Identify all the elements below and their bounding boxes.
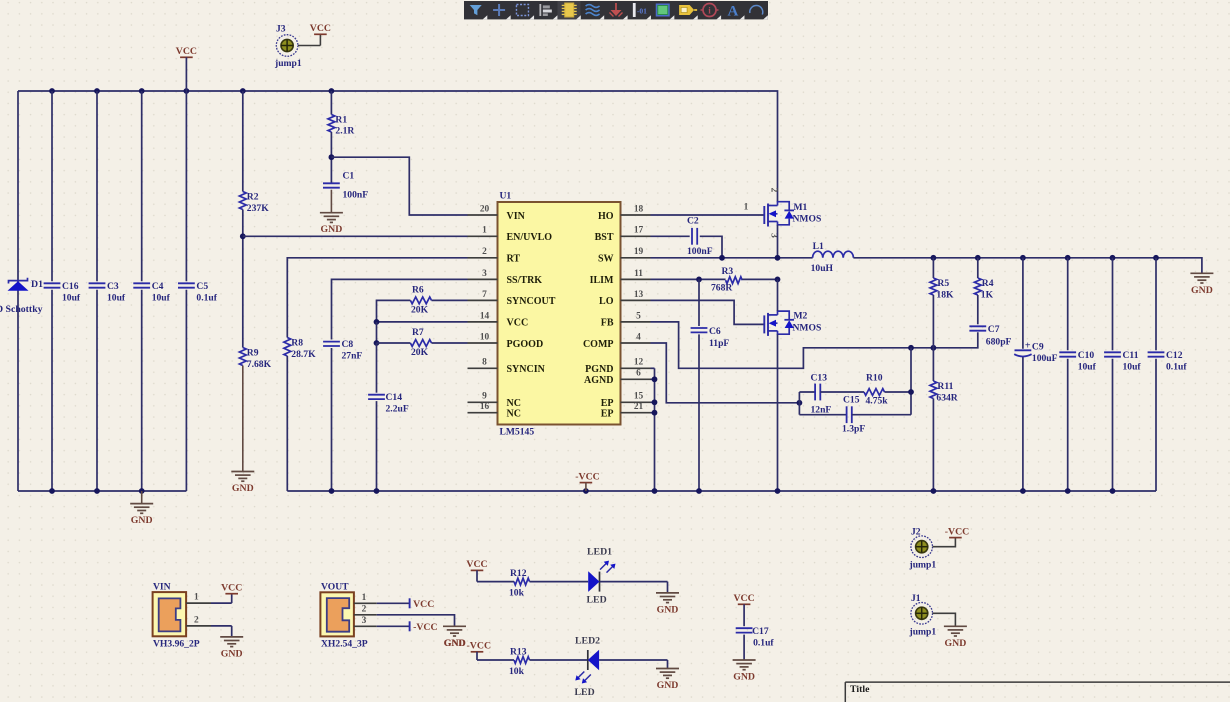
svg-text:PGOOD: PGOOD [507, 339, 544, 350]
svg-text:GND: GND [221, 648, 243, 659]
wire M1 source to SW [777, 225, 779, 258]
jumper J1 [909, 593, 937, 638]
svg-text:C2: C2 [687, 216, 699, 227]
svg-text:2.1R: 2.1R [335, 126, 355, 137]
wire C5 column [185, 91, 187, 491]
wire C4 column [141, 91, 143, 491]
svg-text:R4: R4 [982, 278, 994, 289]
power -VCC LED2 [467, 640, 492, 660]
svg-text:20K: 20K [411, 305, 429, 316]
ground input rail [130, 491, 153, 526]
ground C1 [320, 190, 343, 236]
svg-text:-VCC: -VCC [413, 622, 438, 633]
wire left rail [17, 91, 19, 491]
svg-text:10uf: 10uf [62, 293, 81, 304]
svg-text:GND: GND [444, 638, 466, 649]
svg-text:VH3.96_2P: VH3.96_2P [153, 639, 200, 650]
svg-text:7.68K: 7.68K [247, 359, 272, 370]
wire R1 to C1 node [329, 132, 335, 183]
wire column to C14 [376, 343, 378, 393]
wire R8 to bus [286, 356, 288, 491]
svg-text:100nF: 100nF [343, 190, 369, 201]
svg-text:C6: C6 [709, 326, 721, 337]
svg-text:LED: LED [575, 687, 595, 698]
svg-text:R10: R10 [866, 373, 883, 384]
svg-text:R8: R8 [291, 338, 303, 349]
svg-text:PGND: PGND [585, 364, 613, 375]
svg-text:12: 12 [634, 358, 644, 368]
svg-text:17: 17 [634, 226, 644, 236]
svg-text:10uH: 10uH [811, 263, 834, 274]
svg-text:A: A [727, 4, 738, 20]
svg-text:SS/TRK: SS/TRK [507, 275, 543, 286]
wire ILIM net [651, 277, 726, 283]
svg-text:2: 2 [194, 615, 199, 625]
wire comp network right leg [908, 348, 914, 415]
svg-text:C3: C3 [107, 281, 119, 292]
capacitor C15 [799, 395, 911, 435]
svg-text:C4: C4 [152, 281, 164, 292]
svg-text:-VCC: -VCC [575, 471, 600, 482]
svg-text:18: 18 [634, 204, 644, 214]
wire R5 to FB line [932, 295, 934, 348]
svg-text:1.3pF: 1.3pF [842, 424, 865, 435]
wire EN to pin1 [243, 235, 468, 237]
svg-text:GND: GND [232, 483, 254, 494]
svg-text:11pF: 11pF [709, 338, 729, 349]
wire LED2 to GND [599, 660, 667, 669]
svg-text:M2: M2 [794, 311, 808, 322]
svg-text:C13: C13 [811, 373, 828, 384]
ground VOUT pin2 [443, 626, 466, 649]
capacitor C3 [89, 281, 126, 304]
svg-text:2: 2 [768, 188, 778, 193]
svg-text:VCC: VCC [413, 599, 434, 610]
ground LED1 [656, 593, 679, 616]
svg-text:0.1uf: 0.1uf [1166, 362, 1187, 373]
wire top VCC bus [18, 91, 778, 202]
wire C6 column [698, 279, 700, 326]
wire RT net [287, 258, 467, 338]
resistor R6 [410, 285, 431, 316]
svg-text:14: 14 [480, 311, 490, 321]
wire COMP net [651, 343, 803, 406]
svg-text:VIN: VIN [153, 582, 171, 593]
svg-text:16: 16 [480, 402, 490, 412]
svg-text:28.7K: 28.7K [291, 349, 316, 360]
power VCC LED1 [466, 559, 487, 581]
wire C16 column [51, 91, 53, 491]
svg-text:15: 15 [634, 392, 644, 402]
svg-text:Title: Title [850, 684, 870, 695]
wire column to R7 [374, 322, 380, 346]
power VCC top [176, 46, 197, 91]
wire VOUT pin3 [377, 625, 410, 627]
capacitor C17 [736, 626, 775, 649]
resistor R12 [509, 568, 530, 599]
svg-text:10uf: 10uf [107, 293, 126, 304]
wire M2 source to bus [777, 334, 779, 491]
svg-text:HO: HO [598, 211, 614, 222]
svg-text:10uf: 10uf [1078, 362, 1097, 373]
wire SS/TRK net [332, 279, 468, 339]
wire R2 to EN node [240, 210, 246, 348]
svg-text:9: 9 [482, 392, 487, 402]
wire VOUT pin2 to GND [377, 615, 455, 627]
capacitor C13 [799, 373, 864, 416]
svg-text:R11: R11 [937, 381, 953, 392]
resistor R11 [930, 348, 959, 404]
wire R12 to LED1 [530, 581, 589, 583]
capacitor C10 [1059, 350, 1096, 373]
wire VIN pin1 to VCC [211, 594, 232, 603]
junction dots on top bus [49, 88, 334, 94]
svg-text:18K: 18K [936, 290, 954, 301]
svg-text:J3: J3 [276, 24, 286, 35]
capacitor C2 [687, 216, 713, 258]
svg-text:R6: R6 [412, 285, 424, 296]
svg-text:NMOS: NMOS [793, 323, 822, 334]
svg-text:R9: R9 [247, 348, 259, 359]
wire C6 to bus [698, 334, 700, 491]
svg-text:21: 21 [634, 402, 644, 412]
capacitor C7 [969, 324, 1011, 348]
transistor M1 [764, 188, 821, 239]
resistor R9 [239, 348, 271, 371]
svg-text:R5: R5 [937, 278, 949, 289]
svg-text:C15: C15 [843, 395, 860, 406]
wire C9 column [1022, 258, 1024, 491]
svg-text:EN/UVLO: EN/UVLO [507, 232, 553, 243]
wire HO to M1 gate [651, 203, 765, 216]
svg-text:2: 2 [482, 247, 487, 257]
svg-text:COMP: COMP [583, 339, 614, 350]
svg-text:jump1: jump1 [909, 627, 937, 638]
svg-text:0.1uf: 0.1uf [196, 293, 217, 304]
svg-text:LED2: LED2 [575, 636, 600, 647]
svg-text:R2: R2 [247, 192, 259, 203]
svg-text:R12: R12 [510, 568, 527, 579]
wire SYNCOUT net [432, 299, 468, 301]
ground VOUT rail [1190, 273, 1213, 296]
LED LED1 [587, 547, 616, 606]
svg-text:VIN: VIN [507, 211, 526, 222]
svg-text:C8: C8 [342, 339, 354, 350]
svg-text:GND: GND [657, 680, 679, 691]
LED LED2 [575, 636, 601, 699]
svg-text:20: 20 [480, 204, 490, 214]
svg-text:10k: 10k [509, 588, 525, 599]
wire M2 drain [777, 279, 779, 311]
svg-text:C11: C11 [1123, 350, 1139, 361]
capacitor C12 [1148, 350, 1188, 373]
wire C3 column [96, 91, 98, 491]
wire VCC to R12 [477, 581, 514, 583]
capacitor C11 [1104, 350, 1141, 373]
svg-text:jump1: jump1 [909, 560, 937, 571]
svg-text:100uF: 100uF [1032, 353, 1058, 364]
svg-text:4.75k: 4.75k [866, 396, 889, 407]
wire LED1 to GND [600, 582, 668, 593]
wire C10 column [1067, 258, 1069, 491]
wire LO to M2 gate [651, 300, 765, 324]
resistor R10 [864, 373, 911, 407]
wire R6 to column [377, 300, 411, 322]
svg-text:LED1: LED1 [587, 547, 612, 558]
svg-text:SW: SW [598, 254, 614, 265]
wire VOUT pin1 [377, 602, 410, 604]
svg-text:AGND: AGND [584, 375, 613, 386]
svg-text:SYNCOUT: SYNCOUT [507, 296, 556, 307]
svg-text:3: 3 [362, 616, 367, 626]
svg-text:768R: 768R [711, 283, 733, 294]
svg-text:634R: 634R [936, 393, 958, 404]
svg-text:1: 1 [482, 226, 487, 236]
svg-text:R7: R7 [412, 327, 424, 338]
wire R13 to LED2 [530, 659, 588, 661]
power VCC C17 [733, 593, 754, 626]
svg-text:-VCC: -VCC [467, 640, 492, 651]
svg-text:+: + [1025, 341, 1031, 352]
svg-text:19: 19 [634, 247, 644, 257]
wire VIN pin2 to GND [211, 626, 232, 637]
svg-text:10uf: 10uf [1123, 362, 1142, 373]
svg-text:5: 5 [636, 311, 641, 321]
capacitor C8 [323, 339, 362, 362]
wire FB net [651, 322, 978, 368]
svg-text:C14: C14 [386, 392, 403, 403]
svg-text:C16: C16 [62, 281, 79, 292]
svg-text:11: 11 [634, 269, 643, 279]
wire PGOOD net [377, 342, 468, 344]
svg-text:VCC: VCC [310, 23, 331, 34]
svg-text:U1: U1 [500, 191, 512, 202]
wire C11 column [1112, 258, 1114, 491]
resistor R13 [509, 647, 530, 678]
svg-text:LO: LO [599, 296, 614, 307]
port -VCC VOUT pin3 [410, 621, 438, 633]
svg-text:20K: 20K [411, 347, 429, 358]
svg-text:SYNCIN: SYNCIN [507, 364, 546, 375]
svg-text:EP: EP [601, 409, 614, 420]
svg-text:ILIM: ILIM [590, 275, 614, 286]
svg-text:R1: R1 [335, 115, 347, 126]
resistor R5 [930, 258, 954, 301]
svg-text:NC: NC [507, 398, 521, 409]
power -VCC J2 [945, 526, 970, 537]
ground J1 [944, 626, 967, 649]
svg-text:GND: GND [657, 604, 679, 615]
svg-text:R13: R13 [510, 647, 527, 658]
svg-text:C17: C17 [752, 626, 769, 637]
svg-text:1: 1 [744, 203, 749, 213]
port VCC VOUT pin1 [410, 598, 435, 610]
svg-text:VOUT: VOUT [321, 582, 349, 593]
wire C1 node to pin20 [331, 157, 467, 215]
svg-text:100nF: 100nF [687, 246, 713, 257]
svg-text:0.1uf: 0.1uf [753, 638, 774, 649]
wire VOUT rail [853, 255, 1202, 273]
svg-text:NMOS: NMOS [793, 214, 822, 225]
connector VIN VH3.96_2P [153, 582, 211, 650]
wire VCC pin net [374, 319, 468, 325]
svg-text:C10: C10 [1078, 350, 1095, 361]
connector VOUT XH2.54_3P [320, 582, 376, 650]
svg-text:FB: FB [601, 318, 614, 329]
svg-text:GND: GND [733, 672, 755, 683]
resistor R7 [410, 327, 431, 358]
svg-text:VCC: VCC [221, 583, 242, 594]
svg-text:-01: -01 [637, 7, 647, 16]
svg-text:1: 1 [362, 593, 367, 603]
capacitor C16 [44, 281, 81, 304]
wire bottom ground bus [287, 488, 1156, 494]
svg-text:D Schottky: D Schottky [0, 304, 43, 315]
svg-text:R3: R3 [722, 266, 734, 277]
svg-text:6: 6 [636, 369, 641, 379]
svg-text:C5: C5 [196, 281, 208, 292]
capacitor C9 polarized [1014, 341, 1057, 365]
diode D1 [0, 91, 43, 491]
svg-text:M1: M1 [794, 202, 808, 213]
capacitor C14 [368, 392, 409, 415]
wire C17 to GND [743, 635, 745, 660]
wire comp network left leg [798, 392, 800, 415]
ground LED2 [656, 669, 679, 692]
svg-text:C7: C7 [988, 324, 1000, 335]
wire M1 drain [777, 201, 779, 203]
svg-text:13: 13 [634, 290, 644, 300]
ground C17 [733, 660, 756, 683]
IC U1 LM5145 [468, 191, 651, 438]
inductor L1 [811, 241, 854, 274]
toolbar [464, 1, 768, 20]
svg-text:RT: RT [507, 254, 521, 265]
jumper J2 [909, 527, 937, 571]
svg-text:jump1: jump1 [274, 58, 302, 69]
ground label GND-VCC [444, 638, 466, 649]
resistor R3 [711, 266, 742, 294]
svg-text:LED: LED [587, 595, 607, 606]
svg-text:L1: L1 [813, 241, 824, 252]
wire J3 to VCC [298, 34, 320, 45]
jumper J3 [274, 24, 302, 70]
wire C2 to SW [700, 236, 722, 257]
svg-text:BST: BST [595, 232, 614, 243]
wire BST to C2 [651, 235, 690, 237]
svg-text:GND: GND [321, 224, 343, 235]
svg-text:VCC: VCC [466, 559, 487, 570]
wire R4 to C7 [977, 295, 979, 324]
svg-text:2: 2 [362, 604, 367, 614]
capacitor C4 [133, 281, 170, 304]
svg-text:10uf: 10uf [152, 293, 171, 304]
wire SW net [651, 255, 813, 261]
resistor R2 [239, 91, 269, 214]
svg-text:7: 7 [482, 290, 487, 300]
svg-text:VCC: VCC [176, 46, 197, 57]
svg-text:237K: 237K [247, 203, 269, 214]
wire C12 column [1155, 258, 1157, 491]
wire J2 to -VCC [933, 538, 956, 547]
svg-text:8: 8 [482, 358, 487, 368]
svg-text:3: 3 [482, 269, 487, 279]
svg-text:-VCC: -VCC [945, 526, 970, 537]
svg-text:C1: C1 [343, 171, 355, 182]
power VCC VIN [221, 583, 242, 594]
svg-text:GND: GND [131, 515, 153, 526]
capacitor C5 [178, 281, 218, 304]
svg-text:GND: GND [945, 638, 967, 649]
svg-text:27nF: 27nF [342, 351, 363, 362]
wire -VCC to R13 [477, 659, 514, 661]
power -VCC bus [575, 471, 600, 491]
svg-text:J1: J1 [911, 593, 921, 604]
wire R3 to M column [742, 277, 780, 283]
capacitor C6 [691, 326, 730, 349]
svg-text:C9: C9 [1032, 342, 1044, 353]
wire EP column [651, 368, 658, 491]
wire input ground rail [18, 488, 186, 494]
transistor M2 [764, 311, 821, 336]
svg-text:C12: C12 [1166, 350, 1183, 361]
svg-text:NC: NC [507, 409, 521, 420]
title block [845, 682, 1230, 702]
svg-text:VCC: VCC [507, 318, 529, 329]
power VCC J3 [310, 23, 331, 34]
svg-text:LM5145: LM5145 [500, 427, 535, 438]
resistor R4 [974, 258, 993, 301]
wire J1 to GND [933, 613, 956, 626]
svg-text:10: 10 [480, 332, 490, 342]
wire C14 to bus [376, 401, 378, 491]
svg-text:EP: EP [601, 398, 614, 409]
svg-text:GND: GND [1191, 285, 1213, 296]
resistor R8 [284, 338, 316, 361]
wire R11 to bus [932, 399, 934, 492]
svg-text:4: 4 [636, 332, 641, 342]
ground R9 [231, 366, 254, 495]
ground VIN [220, 637, 243, 660]
svg-text:1K: 1K [981, 290, 994, 301]
capacitor C1 [323, 171, 368, 201]
svg-text:680pF: 680pF [986, 337, 1012, 348]
resistor R1 [328, 91, 355, 137]
svg-text:10k: 10k [509, 666, 525, 677]
wire C8 to bus [331, 348, 333, 491]
svg-text:2.2uF: 2.2uF [386, 404, 409, 415]
svg-text:J2: J2 [911, 527, 921, 538]
svg-text:VCC: VCC [733, 593, 754, 604]
svg-text:D1: D1 [31, 279, 43, 290]
svg-text:1: 1 [194, 593, 199, 603]
svg-text:XH2.54_3P: XH2.54_3P [321, 639, 368, 650]
